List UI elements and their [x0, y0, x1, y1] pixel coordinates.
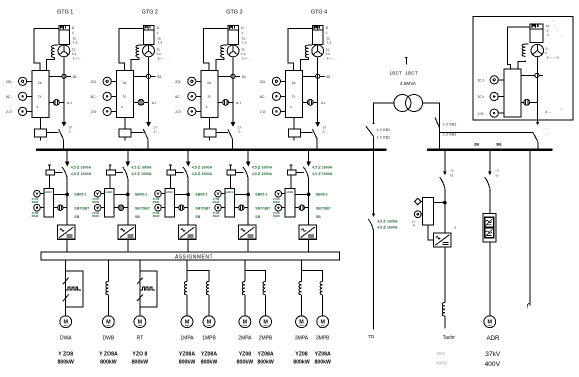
svg-text:·ts: ·ts: [450, 174, 454, 178]
emergency inner label: [546, 108, 563, 115]
svg-text:800kW: 800kW: [57, 360, 74, 366]
svg-text:400V: 400V: [436, 360, 448, 366]
emergency generator annotation: [546, 47, 560, 60]
feeder B blade label: [495, 169, 499, 178]
svg-text:3MPA: 3MPA: [295, 335, 309, 341]
emergency terminal circles: [490, 76, 504, 118]
svg-text:.c: .c: [546, 28, 549, 32]
svg-text:800kW: 800kW: [314, 360, 331, 366]
svg-text::.: :.: [557, 28, 559, 32]
svg-text:Y ZO8A: Y ZO8A: [99, 351, 118, 357]
svg-text:.·: .·: [560, 34, 562, 38]
svg-text:–: –: [561, 108, 563, 112]
wire to DWA motor: [65, 307, 67, 316]
bus section labels: [474, 141, 502, 146]
svg-text:1.: 1.: [547, 33, 550, 37]
feeder A node: [443, 201, 447, 205]
svg-text:TD: TD: [368, 334, 375, 340]
svg-text:4,5 ℤ 1600A: 4,5 ℤ 1600A: [377, 226, 398, 230]
DWA starter branch: [63, 260, 83, 316]
svg-text:400V: 400V: [485, 361, 501, 368]
generator unit GTG 1: [6, 10, 84, 150]
motor RT: [132, 316, 149, 366]
svg-text:800kW: 800kW: [132, 360, 149, 366]
motor 2MPB: [257, 316, 274, 366]
svg-text:1 ℤ KB1: 1 ℤ KB1: [377, 135, 390, 139]
feeder C label: [543, 127, 548, 137]
transformer left leg with breaker: [366, 103, 394, 149]
1MPA/1MPB reactor pair branch: [184, 260, 209, 316]
emergency terminal labels: [478, 79, 485, 117]
svg-text:2MPA: 2MPA: [238, 335, 252, 341]
feeder A drop with arrow and blade: [440, 151, 447, 233]
transformer top stub: [405, 57, 407, 64]
feeder B drop with arrow and blade: [485, 151, 492, 188]
tie link emergency generator to bus: [440, 132, 538, 149]
svg-text:· : ·: · : ·: [543, 127, 548, 131]
svg-text:GTG 4: GTG 4: [311, 10, 327, 16]
svg-text:2C·t: 2C·t: [478, 79, 484, 83]
feeder A blade label: [450, 169, 455, 178]
svg-text:37kV: 37kV: [485, 351, 501, 358]
emergency exciter box: [530, 24, 543, 43]
svg-text:YZ08A: YZ08A: [201, 351, 217, 357]
emergency ct line: [521, 99, 537, 105]
emergency generator circle: [531, 44, 543, 56]
svg-text:1BCT 1BCT: 1BCT 1BCT: [390, 71, 419, 76]
svg-text:·s·: ·s·: [495, 174, 499, 178]
drive feeder group 3: [153, 151, 213, 252]
svg-text:GTG 2: GTG 2: [142, 10, 158, 16]
transformer right leg with breaker: [423, 103, 440, 149]
right busbar: [427, 149, 553, 151]
motor 3MPA: [293, 316, 310, 366]
svg-text:800kW: 800kW: [237, 360, 254, 366]
svg-text:800kW: 800kW: [100, 360, 117, 366]
svg-text:1MPB: 1MPB: [202, 335, 216, 341]
feeder A line to reactor: [442, 247, 445, 328]
RT starter branch: [137, 260, 157, 316]
left leg labels: [377, 128, 390, 139]
motor DWA: [57, 316, 74, 366]
svg-text:·.: ·.: [554, 23, 556, 27]
emergency excitation coil: [518, 44, 529, 69]
feeder A node wire: [433, 202, 444, 204]
generator unit GTG 3: [175, 10, 253, 150]
3MPA/3MPB reactor pair branch: [299, 260, 323, 316]
svg-text:DWA: DWA: [60, 335, 72, 341]
wire to RT motor: [139, 307, 141, 316]
distribution switchboard box: [41, 252, 340, 260]
emergency exciter wire: [507, 27, 530, 69]
motor 1MPA: [179, 316, 196, 366]
svg-text:1MPA: 1MPA: [180, 335, 194, 341]
feeder A instrument labels: [412, 220, 416, 228]
motor 3MPB: [314, 316, 331, 366]
transformer windings: [394, 95, 423, 112]
motor 2MPA: [237, 316, 254, 366]
svg-text:0kV: 0kV: [437, 351, 446, 357]
svg-text:DWB: DWB: [103, 335, 115, 341]
svg-text:s.t: s.t: [546, 24, 549, 28]
svg-text:2C·t: 2C·t: [478, 95, 484, 99]
2MPA/2MPB reactor pair branch: [242, 260, 265, 316]
svg-text:YZ08A: YZ08A: [315, 351, 331, 357]
svg-text:YZ08A: YZ08A: [258, 351, 274, 357]
emergency node line: [521, 73, 543, 77]
svg-text:1 ℤ KB1: 1 ℤ KB1: [377, 128, 390, 132]
feeder B soft starter block: [483, 214, 496, 243]
emergency stator block: [504, 69, 521, 117]
svg-text:· ·: · ·: [545, 133, 548, 137]
svg-text:· s: · s: [495, 169, 499, 173]
svg-text:1 ℤ KB1: 1 ℤ KB1: [443, 132, 456, 136]
svg-text:RT: RT: [137, 335, 144, 341]
svg-text:4,5MVA: 4,5MVA: [400, 81, 417, 86]
svg-text:YZO 8: YZO 8: [132, 351, 147, 357]
svg-text:800kW: 800kW: [257, 360, 274, 366]
feeder A instrument block: [423, 197, 434, 224]
svg-text:2B: 2B: [474, 141, 479, 146]
emergency generator output line: [536, 57, 539, 126]
svg-text:Tachr: Tachr: [443, 335, 456, 341]
right leg labels: [443, 122, 456, 136]
svg-text:· s·: · s·: [450, 169, 455, 173]
drive feeder group 1: [32, 151, 92, 252]
left 3kV busbar: [36, 149, 387, 151]
svg-text:4,5 ℤ 1600A: 4,5 ℤ 1600A: [377, 219, 398, 223]
svg-text:800kW: 800kW: [179, 360, 196, 366]
TD blade labels: [377, 219, 398, 229]
motor 1MPB: [201, 316, 218, 366]
emergency generator enclosure: [473, 17, 573, 120]
svg-text:3MPB: 3MPB: [316, 335, 330, 341]
svg-text:1—. .—s: 1—. .—s: [547, 56, 560, 60]
svg-text:ADR: ADR: [486, 335, 500, 342]
feeder B line to motor: [489, 188, 491, 315]
drive feeder group 2: [92, 151, 152, 252]
DWB reactor branch: [106, 260, 109, 316]
svg-text:800kW: 800kW: [201, 360, 218, 366]
generator unit GTG 4: [260, 10, 338, 150]
generator unit GTG 2: [91, 10, 169, 150]
svg-text:2MPB: 2MPB: [259, 335, 273, 341]
svg-text:GTG 3: GTG 3: [226, 10, 242, 16]
svg-text:3B.: 3B.: [496, 141, 502, 146]
svg-text:800kW: 800kW: [293, 360, 310, 366]
svg-text:a –: a –: [546, 110, 552, 114]
svg-text:YZ08A: YZ08A: [179, 351, 195, 357]
svg-text:ASSIGNMENT: ASSIGNMENT: [175, 254, 213, 260]
svg-text:YZ08: YZ08: [239, 351, 252, 357]
svg-text:1 ℤ KB1: 1 ℤ KB1: [443, 122, 456, 126]
feeder A converter: [433, 233, 451, 247]
TD feeder line: [368, 151, 375, 330]
drive feeder group 5: [273, 151, 333, 252]
motor ADR: [484, 316, 501, 368]
emergency annotations right: [546, 19, 562, 38]
svg-text:GTG 1: GTG 1: [57, 10, 73, 16]
svg-text:YZ08: YZ08: [295, 351, 308, 357]
feeder A instrument circles: [414, 198, 422, 218]
Tachr ratings (faint): [436, 351, 448, 366]
svg-text:2,O·: 2,O·: [478, 112, 485, 116]
svg-text:Y ZO8: Y ZO8: [58, 351, 73, 357]
feeder C spare line: [527, 151, 530, 308]
motor DWB: [99, 316, 118, 366]
drive feeder group 4: [213, 151, 273, 252]
svg-text:t:.: t:.: [546, 51, 549, 55]
feeder A block bottom wire: [428, 225, 433, 240]
